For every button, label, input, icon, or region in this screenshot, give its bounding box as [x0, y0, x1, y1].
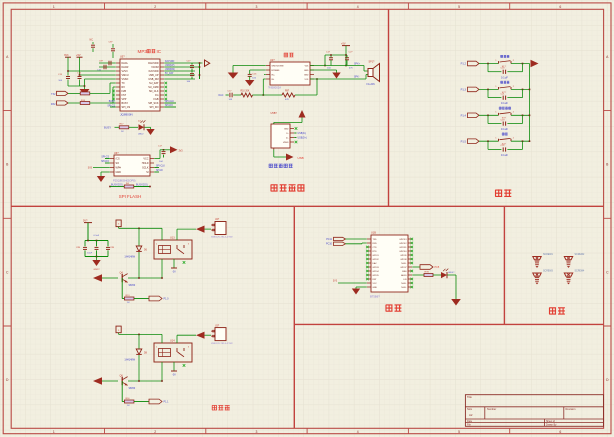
power -5V U14: [171, 370, 177, 372]
svg-text:GPIO12: GPIO12: [399, 243, 407, 245]
svg-text:6: 6: [559, 430, 561, 434]
svg-text:1: 1: [53, 5, 55, 9]
wire DAC outputs right of U5: [164, 62, 202, 64]
node USB D-: [294, 132, 296, 134]
section label 螺纹: [549, 307, 565, 314]
capacitor C19: [502, 122, 504, 126]
node BUSY-DO right: [134, 186, 150, 188]
wire coil top U14: [161, 334, 163, 343]
svg-text:/CS: /CS: [116, 157, 120, 160]
wire base tag R13: [134, 298, 149, 300]
svg-text:A2: A2: [469, 413, 473, 417]
svg-text:4: 4: [357, 430, 359, 434]
wire LED to ground: [145, 126, 151, 128]
svg-text:SU_CMD: SU_CMD: [148, 86, 159, 89]
svg-text:Date: Date: [467, 420, 473, 423]
svg-text:NC: NC: [90, 39, 94, 42]
ground flash: [101, 171, 110, 173]
svg-text:IC: IC: [157, 49, 162, 54]
wire collector rail U13: [102, 277, 118, 279]
node USB D+: [294, 137, 296, 139]
title block: [465, 395, 603, 427]
svg-text:D-: D-: [286, 133, 288, 135]
svg-text:TX: TX: [122, 82, 125, 85]
svg-text:0.1uF: 0.1uF: [501, 75, 508, 79]
wire base Q6: [121, 381, 123, 402]
wire section divider horizontal mid-right: [294, 323, 603, 325]
wire key row 2 right: [511, 88, 530, 90]
svg-text:DAC: DAC: [373, 262, 378, 265]
resistor R4: [124, 185, 134, 188]
wire key row 1 right: [511, 63, 530, 65]
svg-text:USB_DM: USB_DM: [148, 78, 158, 81]
svg-text:SI: SI: [146, 171, 149, 174]
svg-text:RX2: RX2: [51, 103, 56, 106]
svg-text:SPK+: SPK+: [354, 63, 361, 65]
svg-text:6: 6: [559, 5, 561, 9]
no-connect flags bluetooth right top: [411, 238, 414, 241]
wire txd: [346, 238, 367, 240]
ground: [352, 289, 360, 295]
svg-text:SPI-DO: SPI-DO: [165, 105, 173, 107]
wire connector U14: [205, 334, 212, 336]
no-connect relay contact U14: [183, 364, 186, 367]
svg-text:+5V: +5V: [76, 54, 81, 57]
svg-text:SPK-: SPK-: [354, 77, 360, 79]
svg-text:RXD: RXD: [373, 243, 378, 245]
svg-text:Title: Title: [467, 395, 472, 399]
wire coil bottom U14: [161, 362, 163, 381]
wire connector U13: [205, 228, 212, 230]
power arrow key bus: [531, 60, 539, 68]
svg-text:BYPASS: BYPASS: [272, 69, 281, 72]
svg-text:File: File: [467, 424, 472, 427]
svg-text:SPI_SCK: SPI_SCK: [148, 102, 159, 105]
capacitor C15: [78, 76, 82, 78]
svg-text:L/N: L/N: [403, 279, 407, 281]
power arrow 3V3: [170, 146, 178, 153]
svg-text:S8050: S8050: [129, 285, 136, 287]
svg-text:5V_DAT: 5V_DAT: [165, 72, 174, 75]
svg-text:C2B: C2B: [110, 247, 115, 249]
capacitor C30: [107, 241, 109, 247]
port PC5: [412, 266, 420, 268]
svg-text:U5B?: U5B?: [271, 112, 278, 115]
svg-text:NULL: NULL: [401, 287, 407, 289]
svg-text:SD_CLK: SD_CLK: [149, 90, 159, 93]
port P1.0: [149, 296, 162, 301]
svg-text:3V3: 3V3: [88, 166, 93, 169]
svg-text:CTS: CTS: [373, 247, 378, 249]
wire section divider horizontal: [11, 205, 603, 207]
svg-text:SPI-CLK: SPI-CLK: [165, 101, 174, 103]
wire key row 2 left: [479, 88, 499, 90]
svg-text:GND: GND: [304, 74, 309, 76]
wire cap loop 2: [487, 89, 489, 97]
svg-text:FGB: FGB: [153, 98, 158, 101]
capacitor C14 amp: [330, 55, 332, 58]
resistor R7B: [424, 274, 433, 277]
wire section divider vertical mid: [503, 206, 505, 324]
wire contact NO U14: [173, 362, 175, 371]
node SPI-DO: [164, 106, 176, 108]
power -5V U13: [171, 267, 177, 269]
resistor R10: [241, 93, 253, 97]
op-amp U5B USB manager IC: [271, 124, 290, 148]
LED D1B: [433, 274, 441, 276]
svg-text:V2V3: V2V3: [122, 70, 129, 73]
capacitor C13: [66, 76, 70, 78]
capacitor C17: [229, 93, 231, 98]
svg-text:P1.1: P1.1: [164, 401, 170, 404]
wire key bus: [529, 64, 531, 142]
label key name 3: [499, 107, 511, 110]
wire contact common U13: [176, 229, 178, 240]
svg-text:GPIO4: GPIO4: [373, 271, 380, 273]
svg-text:K2CVDD: K2CVDD: [165, 61, 175, 63]
svg-text:SP1?: SP1?: [369, 61, 376, 64]
ground: [332, 73, 340, 79]
capacitor C28: [84, 241, 86, 247]
svg-text:DACVDD: DACVDD: [148, 62, 159, 65]
svg-text:2: 2: [154, 430, 156, 434]
connector PU13: [215, 222, 226, 235]
wire usb out: [273, 150, 275, 158]
power arrow USB: [286, 154, 294, 161]
wire VO1 to speaker: [310, 78, 366, 80]
svg-text:R9?: R9?: [285, 91, 290, 93]
ground: [245, 80, 254, 86]
wire bypass cap: [250, 69, 266, 71]
node BUSY-DO left: [109, 186, 111, 188]
svg-text:GND: GND: [304, 70, 309, 72]
resistor R17: [119, 126, 129, 129]
svg-text:NULL: NULL: [401, 263, 407, 265]
svg-text:TXD: TXD: [373, 239, 378, 241]
svg-text:FST: FST: [122, 94, 127, 97]
wire 3V3 decouple: [67, 57, 69, 75]
op-amp U5 MP3 decoder IC: [120, 59, 160, 111]
power arrow relay U13: [196, 226, 205, 233]
resistor R16: [124, 400, 134, 403]
svg-text:JQ8900N: JQ8900N: [120, 113, 133, 117]
section label 语音播放: [271, 184, 305, 191]
wire to LED D4: [129, 126, 138, 128]
svg-text:VCOM: VCOM: [151, 66, 158, 69]
svg-text:SCREW2: SCREW2: [575, 254, 586, 256]
ground: [150, 127, 152, 129]
svg-text:K2CVDD: K2CVDD: [149, 70, 159, 73]
svg-text:SPI_DO: SPI_DO: [150, 106, 159, 109]
ground: [84, 86, 86, 89]
node SPI-CLK flash: [154, 167, 159, 169]
svg-text:USB(D+): USB(D+): [298, 138, 307, 140]
svg-text:DACL: DACL: [122, 62, 129, 65]
svg-text:SU_DAT: SU_DAT: [149, 82, 159, 85]
no-connect relay contact U13: [183, 261, 186, 264]
svg-text:SPI-DI: SPI-DI: [156, 170, 163, 172]
svg-text:4: 4: [357, 5, 359, 9]
diode D8: [138, 334, 140, 349]
svg-text:GND: GND: [284, 128, 289, 130]
svg-text:3V3: 3V3: [333, 281, 338, 283]
no-connect flags bluetooth right bottom: [411, 278, 414, 281]
svg-text:PC10: PC10: [326, 243, 333, 246]
wire key row 3 left: [479, 114, 499, 116]
label USB管理芯片: [269, 164, 293, 168]
capacitor C20 amp: [346, 55, 348, 58]
svg-text:5: 5: [458, 430, 460, 434]
svg-text:1N4148W: 1N4148W: [124, 255, 135, 258]
wire section divider vertical top: [388, 9, 390, 206]
svg-text:U6?: U6?: [114, 152, 119, 155]
svg-text:SHUTDOWN: SHUTDOWN: [272, 65, 284, 67]
ground GND2: [96, 257, 98, 261]
op-amp U2 audio amplifier: [270, 62, 310, 85]
wire cap loop 4: [487, 141, 489, 149]
wire section divider vertical bottom-left: [293, 206, 295, 428]
wire bt ground: [356, 286, 367, 288]
svg-text:FG: FG: [155, 94, 158, 97]
svg-text:U1B: U1B: [371, 231, 376, 234]
ground: [451, 299, 461, 306]
svg-text:GPIO7: GPIO7: [400, 267, 407, 269]
wire key row 4 right: [511, 140, 530, 142]
power tag 5V U13: [116, 220, 121, 227]
svg-text:USB_UP: USB_UP: [149, 74, 159, 77]
resistor R13: [124, 297, 134, 300]
capacitor C9 on DACL wire: [99, 62, 116, 64]
wire usb power: [273, 123, 275, 125]
wire contact common U14: [176, 335, 178, 343]
svg-text:?NS8002A: ?NS8002A: [268, 86, 281, 90]
svg-text:GND?: GND?: [93, 269, 100, 271]
svg-text:DAC: DAC: [219, 94, 224, 97]
svg-text:GPIO2: GPIO2: [373, 259, 380, 261]
svg-text:VPP: VPP: [122, 98, 127, 101]
svg-text:P25Q80SH(SOP8): P25Q80SH(SOP8): [113, 178, 136, 182]
svg-text:SPI FLASH: SPI FLASH: [119, 194, 141, 199]
wire rxd: [346, 243, 363, 245]
connector PU14: [215, 328, 226, 341]
relay U14: [154, 343, 192, 362]
svg-text:WP#: WP#: [116, 166, 122, 169]
svg-text:RX: RX: [122, 86, 126, 89]
section label 继电器: [212, 405, 230, 410]
svg-text:BUSY: BUSY: [122, 102, 129, 105]
svg-text:LED2: LED2: [138, 134, 144, 136]
capacitor C18: [502, 70, 504, 74]
svg-text:47K: 47K: [285, 99, 289, 101]
svg-text:P1.5: P1.5: [461, 139, 467, 143]
svg-text:3V3: 3V3: [179, 151, 184, 153]
capacitor C22: [502, 147, 504, 151]
svg-text:SPI_CS: SPI_CS: [122, 106, 131, 109]
svg-text:SPI-CLK: SPI-CLK: [156, 165, 165, 167]
svg-text:U14: U14: [170, 339, 175, 342]
switch S2?: [498, 87, 500, 89]
wire cap bank bottom: [85, 256, 108, 258]
port DAC output arrow: [205, 60, 210, 66]
svg-text:1: 1: [53, 430, 55, 434]
wire 5V rail U14: [119, 333, 162, 335]
switch S1?: [498, 61, 500, 63]
no-connect flags bluetooth left: [366, 246, 369, 249]
svg-text:3: 3: [256, 430, 258, 434]
wire 5V rail U13: [119, 227, 162, 229]
svg-text:5: 5: [458, 5, 460, 9]
svg-text:3: 3: [188, 346, 189, 348]
switch S4?: [498, 139, 500, 141]
svg-text:GPIO5: GPIO5: [373, 275, 380, 277]
svg-text:R10 20K: R10 20K: [241, 91, 250, 93]
svg-text:SCREW3: SCREW3: [543, 270, 554, 272]
svg-text:1N4148W: 1N4148W: [124, 358, 135, 361]
svg-text:GPIO1: GPIO1: [373, 255, 380, 257]
svg-text:F2B: F2B: [122, 90, 127, 93]
svg-text:FG-20N: FG-20N: [367, 84, 376, 86]
wire base Q4: [121, 278, 123, 299]
svg-text:GND: GND: [116, 171, 122, 174]
svg-text:AUX0: AUX0: [401, 274, 407, 277]
svg-text:5V?: 5V?: [83, 219, 88, 222]
wire VDD pins: [68, 70, 116, 72]
wire cap loop 3: [487, 115, 489, 123]
svg-text:HOLD: HOLD: [142, 162, 149, 165]
svg-text:1: 1: [156, 243, 157, 245]
svg-text:U5?: U5?: [120, 56, 125, 59]
svg-text:-5V: -5V: [172, 375, 176, 377]
op-amp U1B bluetooth module: [371, 235, 408, 292]
capacitor C6: [191, 71, 193, 73]
section label 功放: [284, 53, 294, 58]
svg-text:BUSY: BUSY: [104, 126, 111, 130]
no-connect flag bluetooth right idx8: [411, 270, 414, 273]
no-connect GND pin: [295, 127, 298, 130]
svg-text:PC11: PC11: [326, 238, 332, 241]
svg-text:3V3: 3V3: [64, 54, 69, 57]
svg-text:1: 1: [156, 346, 157, 348]
svg-text:Number: Number: [487, 407, 496, 411]
svg-text:VCC: VCC: [143, 157, 148, 160]
node SPI-CLK: [164, 102, 176, 104]
svg-text:10uF: 10uF: [87, 252, 92, 254]
wire R10 to node: [253, 94, 264, 96]
svg-text:VSSO: VSSO: [122, 78, 129, 81]
svg-text:TX2: TX2: [51, 93, 56, 96]
svg-text:U2?: U2?: [215, 325, 220, 327]
svg-text:DACR: DACR: [122, 66, 129, 69]
svg-text:P1.3: P1.3: [461, 88, 467, 92]
svg-text:IN-: IN-: [272, 79, 275, 81]
wire key row 3 right: [511, 114, 530, 116]
svg-text:VCC: VCC: [373, 283, 378, 285]
svg-text:PC5: PC5: [435, 266, 440, 269]
no-connect flags left pins: [112, 90, 115, 93]
svg-text:-5V: -5V: [172, 272, 176, 274]
wire feedback to output: [295, 94, 317, 96]
svg-text:XWK12V-T92-5-2?W2: XWK12V-T92-5-2?W2: [211, 237, 233, 239]
capacitor C10 on DACR wire: [99, 66, 116, 68]
svg-text:LED0?: LED0?: [448, 272, 455, 274]
wire base tag R16: [134, 401, 149, 403]
wire led to ground: [447, 274, 456, 276]
section label 蓝牙: [386, 304, 402, 311]
no-connect VBUS pin: [295, 141, 298, 144]
label key name 4: [502, 133, 508, 136]
svg-text:Drawn By: Drawn By: [546, 424, 557, 427]
svg-text:0.1uF: 0.1uF: [501, 153, 508, 157]
svg-text:MP3: MP3: [138, 49, 148, 54]
wire shutdown to ground: [233, 65, 266, 67]
svg-text:BT5B6?: BT5B6?: [370, 294, 380, 298]
switch S3?: [498, 113, 500, 115]
svg-text:SO: SO: [116, 162, 120, 165]
capacitor C29 10uF: [96, 241, 98, 247]
svg-text:USB(D-): USB(D-): [298, 133, 307, 135]
svg-text:SCREW4: SCREW4: [575, 270, 586, 272]
wire IN+: [264, 74, 266, 76]
svg-text:GND: GND: [373, 287, 378, 289]
svg-text:RTS: RTS: [373, 251, 378, 253]
ground: [228, 73, 239, 79]
svg-text:R7B: R7B: [425, 272, 430, 274]
capacitor C21: [502, 96, 504, 100]
wire coil top U13: [161, 228, 163, 240]
svg-text:Size: Size: [467, 407, 473, 411]
wire VCC net: [154, 158, 160, 160]
svg-text:GPIO9: GPIO9: [400, 255, 407, 257]
power tag 5V U14: [116, 326, 121, 333]
wire key row 1 left: [479, 63, 499, 65]
svg-text:VBUS: VBUS: [283, 142, 289, 144]
wire TX net: [90, 92, 110, 94]
svg-text:P1.0: P1.0: [164, 298, 170, 301]
wire contact NO U13: [173, 259, 175, 268]
op-amp U6 SPI flash IC: [114, 155, 150, 176]
svg-text:XWK12V-T92-5-2?W2: XWK12V-T92-5-2?W2: [211, 343, 233, 345]
svg-text:Sheet of: Sheet of: [546, 420, 555, 423]
svg-text:U2?: U2?: [270, 59, 275, 62]
svg-text:U13: U13: [170, 236, 175, 239]
svg-text:GPIO13: GPIO13: [399, 239, 407, 241]
svg-text:GPIO10: GPIO10: [399, 251, 407, 253]
no-connect flags right pins: [165, 82, 168, 85]
section label 按键: [495, 189, 511, 197]
svg-text:USB(DM): USB(DM): [165, 69, 175, 71]
power arrow relay U14: [196, 332, 205, 339]
relay U13: [154, 240, 192, 259]
svg-text:GPIO11: GPIO11: [399, 247, 407, 249]
wire coil bottom U13: [161, 259, 163, 278]
svg-text:P1.4: P1.4: [461, 113, 467, 117]
capacitor C16: [249, 70, 251, 74]
resistor R14: [68, 102, 80, 104]
svg-text:BUSY(DO): BUSY(DO): [136, 184, 148, 187]
diode D6: [138, 228, 140, 246]
resistor R9 feedback: [263, 94, 282, 96]
label key name 1: [501, 55, 510, 58]
svg-text:VMCU: VMCU: [122, 74, 129, 77]
svg-text:GPIO3: GPIO3: [373, 267, 380, 269]
wire cap loop 1: [487, 64, 489, 72]
svg-text:USB: USB: [298, 156, 304, 160]
svg-text:NULL: NULL: [401, 283, 407, 285]
wire amp gnd: [310, 69, 337, 71]
svg-text:USB(UP): USB(UP): [165, 65, 175, 67]
wire vdd rail: [325, 54, 347, 56]
svg-text:P1.2: P1.2: [461, 62, 467, 66]
